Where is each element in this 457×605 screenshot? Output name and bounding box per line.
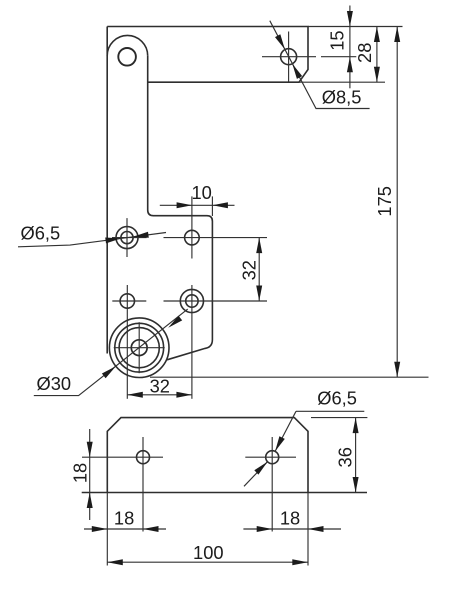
hole H2 [185, 230, 200, 245]
dimension 36 [335, 418, 359, 493]
centerlines H3 [112, 285, 146, 399]
extension line plate left edge [106, 493, 108, 566]
leader D8.5 [270, 21, 370, 109]
hole right bottom view [266, 451, 279, 464]
pivot hole top [118, 48, 136, 66]
part outline top view bar [107, 27, 308, 83]
svg-text:Ø8,5: Ø8,5 [322, 86, 362, 107]
dimension 175 [374, 27, 400, 378]
dimension 32 horizontal [127, 375, 192, 398]
centerlines H1 [112, 218, 147, 257]
svg-text:18: 18 [114, 508, 134, 529]
dimension 18 vertical [69, 429, 92, 520]
dimension 100 [107, 542, 307, 565]
hole H1 D6.5 with counterbore [116, 227, 138, 249]
part outline left edge [106, 27, 108, 354]
roller D30 [109, 318, 169, 378]
centerlines left hole [82, 437, 163, 532]
leader D6.5 bottom view [244, 387, 364, 486]
hole D8.5 [281, 49, 297, 65]
part outline bottom view [107, 418, 308, 493]
dimension 15 [326, 6, 353, 89]
dimension 28 [354, 27, 380, 83]
arm rounded top arc [107, 35, 148, 55]
svg-text:175: 175 [374, 186, 395, 217]
svg-text:28: 28 [354, 43, 375, 63]
svg-text:Ø6,5: Ø6,5 [317, 387, 357, 408]
svg-text:Ø30: Ø30 [37, 373, 72, 394]
centerlines right hole [245, 437, 296, 532]
svg-text:32: 32 [150, 375, 170, 396]
leader D6.5 top view [18, 222, 166, 247]
extension line roller bottom [150, 376, 429, 378]
centerlines roller [114, 322, 165, 373]
centerlines hole D8.5 [262, 32, 316, 82]
dimension 10 [160, 182, 235, 216]
extension line plate right edge [307, 493, 309, 566]
bottom edge line [82, 492, 367, 494]
svg-text:36: 36 [335, 447, 356, 467]
extension line bar bottom [299, 81, 385, 83]
centerlines H2 [164, 196, 268, 258]
svg-text:100: 100 [193, 542, 224, 563]
extension line plate top right [311, 417, 367, 419]
arm right edge step and plate right edge [148, 56, 213, 360]
svg-text:32: 32 [238, 260, 259, 280]
svg-text:18: 18 [280, 508, 300, 529]
hole left bottom view [137, 451, 150, 464]
dimension 18 left [84, 508, 166, 533]
extension line top edge [308, 26, 403, 28]
centerlines H4 [164, 285, 268, 399]
leader D30 [34, 309, 188, 396]
svg-text:18: 18 [69, 463, 90, 483]
hole H4 with counterbore [180, 289, 203, 312]
dimension 32 vertical [238, 238, 262, 301]
svg-text:15: 15 [326, 30, 347, 50]
svg-text:Ø6,5: Ø6,5 [21, 222, 61, 243]
dimension 18 right [243, 508, 341, 533]
extension line hole centerline right [321, 56, 356, 58]
svg-text:10: 10 [192, 182, 212, 203]
hole H3 [120, 294, 134, 308]
